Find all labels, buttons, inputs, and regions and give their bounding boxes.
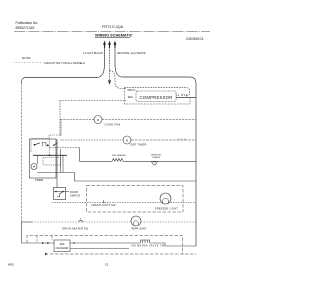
svg-text:NOTE:: NOTE: [22,56,31,60]
svg-text:CIRCUIT NOT ON ALL MODELS: CIRCUIT NOT ON ALL MODELS [44,61,85,65]
svg-text:DEF HEATER: DEF HEATER [112,154,126,157]
svg-text:ICE MAKER: ICE MAKER [56,247,69,250]
svg-text:DEFROST: DEFROST [151,154,162,156]
svg-text:M: M [126,138,128,142]
svg-text:COMPRESSOR: COMPRESSOR [139,95,172,100]
svg-text:ADD: ADD [60,243,65,246]
svg-text:FREEZER LIGHT: FREEZER LIGHT [155,206,178,210]
svg-text:13: 13 [105,263,109,267]
svg-text:8/00: 8/00 [8,263,14,267]
svg-text:L1 HOT BLACK: L1 HOT BLACK [83,51,103,55]
svg-text:M: M [97,118,99,122]
svg-text:COND FAN: COND FAN [105,122,121,126]
svg-text:DRAIN HEATER 5W: DRAIN HEATER 5W [62,228,89,231]
svg-text:GRN/YL: GRN/YL [127,90,136,92]
svg-text:TIMER: TIMER [35,178,43,182]
svg-text:DEF TIMER: DEF TIMER [131,142,147,146]
svg-text:FRT17L3QA: FRT17L3QA [102,25,124,29]
svg-text:NEUTRAL (L2) WHITE: NEUTRAL (L2) WHITE [117,51,146,55]
svg-text:RED: RED [128,97,133,99]
svg-text:L1 BLK: L1 BLK [176,93,188,97]
svg-text:Publication No.: Publication No. [16,21,39,25]
svg-text:THERM: THERM [152,157,160,159]
svg-text:FRESH LIGHT SW: FRESH LIGHT SW [92,204,116,207]
svg-text:SWITCH: SWITCH [70,193,80,197]
svg-text:5995271045: 5995271045 [16,26,35,30]
svg-text:REFR LIGHT: REFR LIGHT [132,228,147,231]
svg-text:240389101: 240389101 [186,37,204,41]
svg-text:WIRING SCHEMATIC: WIRING SCHEMATIC [95,33,133,37]
svg-text:DOOR: DOOR [70,190,78,194]
svg-text:I/M WATER VALVE 7W: I/M WATER VALVE 7W [131,245,165,248]
